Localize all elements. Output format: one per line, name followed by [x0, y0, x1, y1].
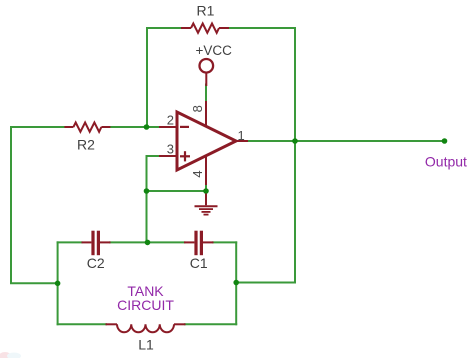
svg-text:C1: C1 [190, 255, 208, 271]
svg-text:1: 1 [238, 128, 245, 143]
svg-text:Output: Output [425, 154, 467, 170]
svg-text:3: 3 [167, 142, 174, 157]
svg-text:+VCC: +VCC [196, 43, 233, 58]
svg-text:C2: C2 [87, 255, 105, 271]
svg-text:2: 2 [167, 113, 174, 128]
svg-text:R1: R1 [197, 3, 215, 19]
svg-text:4: 4 [190, 170, 205, 177]
svg-text:R2: R2 [77, 137, 95, 153]
svg-text:L1: L1 [138, 336, 154, 352]
svg-text:CIRCUIT: CIRCUIT [117, 297, 174, 313]
svg-text:8: 8 [190, 105, 205, 112]
